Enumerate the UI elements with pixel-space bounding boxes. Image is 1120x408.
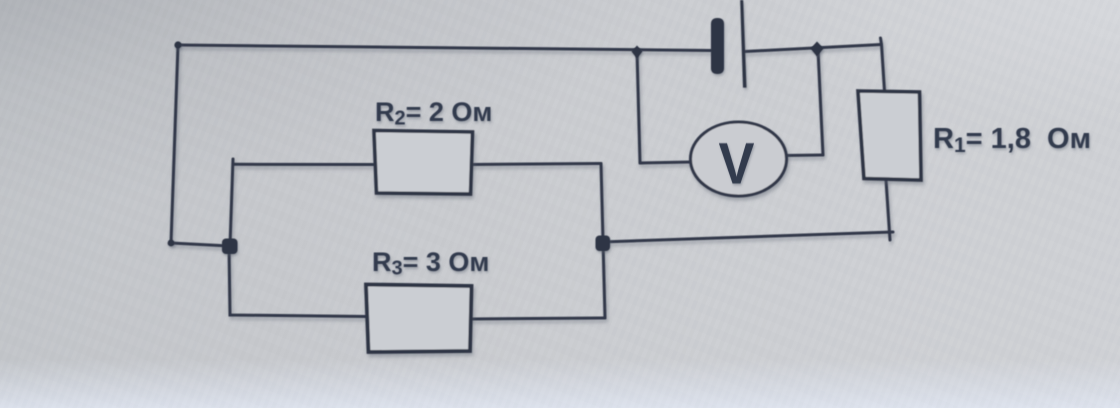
- corner dot top-left: [174, 41, 181, 48]
- junction square node D (left): [222, 239, 238, 255]
- wire junction to R2 row vertical: [230, 159, 233, 246]
- svg-text:V: V: [719, 131, 755, 196]
- wire top-left horizontal: [178, 45, 711, 51]
- resistor R2 box: [374, 131, 473, 195]
- wire R2 left: [233, 163, 374, 166]
- wire voltmeter drop vertical: [637, 51, 640, 163]
- junction dot node C (voltmeter up): [811, 42, 824, 57]
- wire R2 right: [472, 164, 601, 165]
- junction dot node A (voltmeter drop): [632, 46, 643, 59]
- wire left vertical: [171, 45, 178, 243]
- wire junction down to R3 row: [229, 246, 366, 317]
- wire R3 right: [472, 318, 605, 319]
- corner dot bottom-left: [168, 240, 175, 247]
- wire middle vertical node B: [601, 164, 605, 319]
- wire corner tick above R1: [881, 38, 882, 45]
- wire R1 bottom vertical: [886, 180, 890, 240]
- wire R1 top vertical: [882, 45, 885, 92]
- svg-text:R1= 1,8 Ом: R1= 1,8 Ом: [933, 123, 1091, 157]
- battery negative plate (thin long line): [740, 0, 746, 88]
- resistor R3 box: [366, 285, 472, 353]
- wire voltmeter left lead: [640, 162, 691, 163]
- wire bottom right horizontal: [602, 232, 893, 242]
- junction square node B (middle bottom): [596, 236, 611, 252]
- svg-text:R2= 2 Ом: R2= 2 Ом: [375, 97, 492, 130]
- svg-text:R3= 3 Ом: R3= 3 Ом: [372, 247, 489, 280]
- wire battery right to R1 corner: [745, 45, 882, 52]
- resistor R1 box: [858, 91, 921, 180]
- wire voltmeter up vertical: [818, 50, 823, 155]
- battery positive plate (thick bar): [711, 18, 724, 74]
- wire bottom-left stub: [171, 243, 229, 246]
- voltmeter U1 circle: [691, 122, 787, 196]
- wire voltmeter right lead: [785, 154, 823, 158]
